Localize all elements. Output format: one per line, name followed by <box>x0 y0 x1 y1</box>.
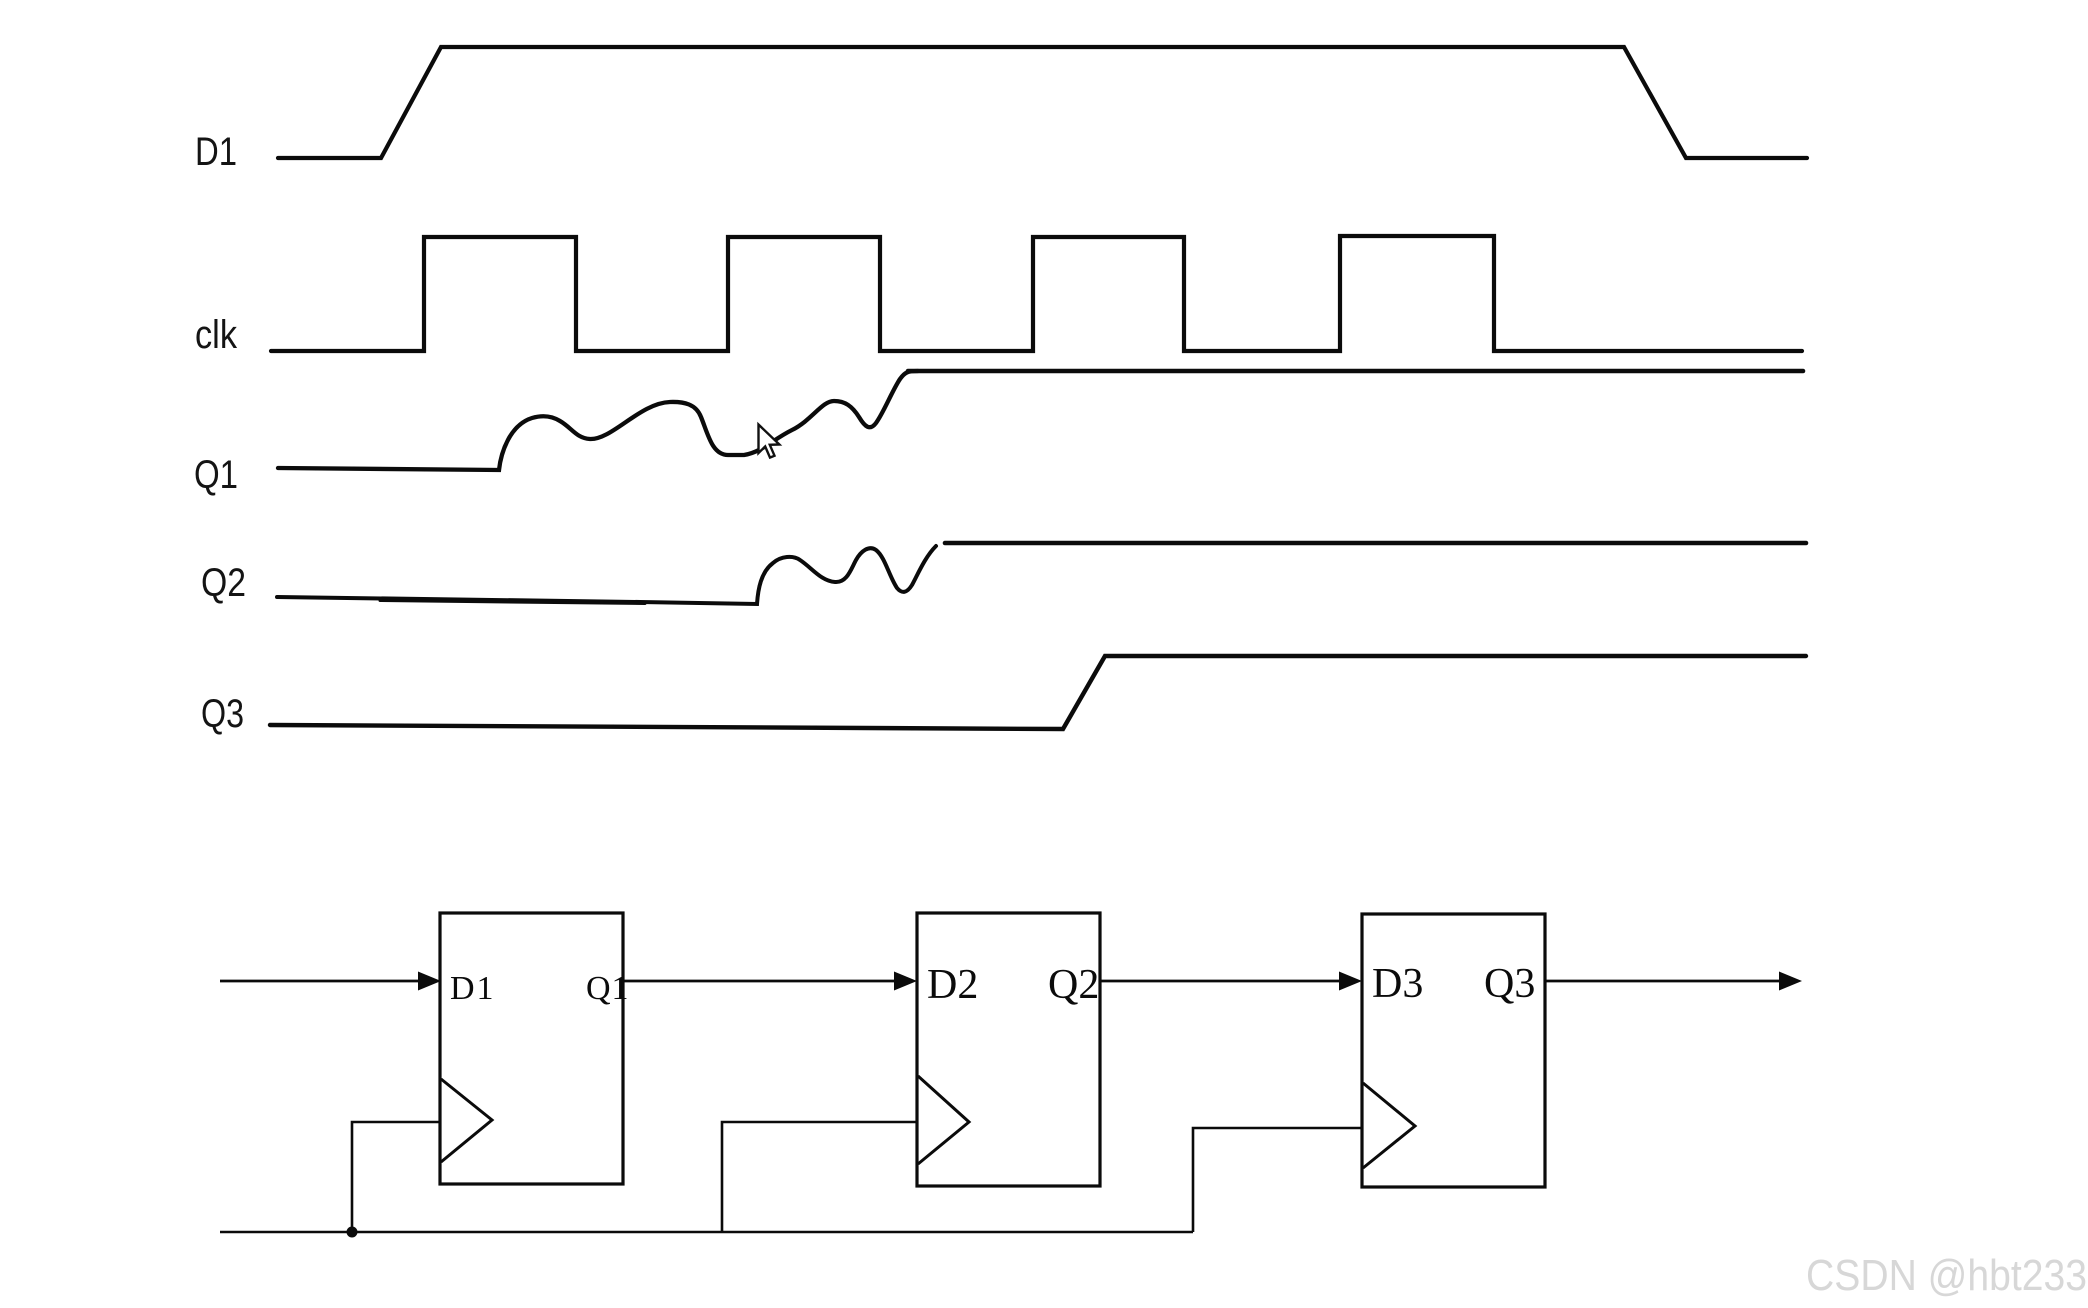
svg-text:D2: D2 <box>927 962 978 1008</box>
svg-text:Q2: Q2 <box>201 561 246 605</box>
waveform Q1 low + metastable squiggle <box>278 371 918 470</box>
wire input to D1 <box>220 980 421 983</box>
clock input triangle U3 <box>1363 1083 1415 1168</box>
waveform D1 <box>278 47 1807 158</box>
wire Q3 output <box>1545 980 1782 983</box>
wire clk to U2 <box>722 1122 917 1232</box>
svg-text:Q1: Q1 <box>586 970 630 1007</box>
flip-flop U2 box <box>917 913 1100 1186</box>
svg-text:Q3: Q3 <box>1484 961 1535 1007</box>
flip-flop U1 box <box>440 913 623 1184</box>
arrowhead output <box>1779 972 1802 991</box>
arrowhead into D1 <box>418 972 441 991</box>
waveform clk <box>271 236 1802 351</box>
waveform Q2 low + squiggle <box>277 546 936 604</box>
wire clk to U1 <box>352 1122 440 1232</box>
waveform Q3 <box>270 656 1806 729</box>
waveform Q1 settled high <box>908 369 1803 374</box>
svg-text:Q3: Q3 <box>201 692 244 736</box>
waveform Q2 settled high <box>945 541 1806 546</box>
svg-text:CSDN @hbt233: CSDN @hbt233 <box>1806 1251 2087 1300</box>
svg-text:Q1: Q1 <box>194 453 238 497</box>
svg-text:D1: D1 <box>450 970 496 1007</box>
svg-text:D3: D3 <box>1372 961 1423 1007</box>
waveform Q2 low doubled stroke <box>380 601 645 604</box>
wire clk to U3 <box>1193 1128 1362 1232</box>
mouse cursor <box>759 425 780 458</box>
flip-flop U3 box <box>1362 914 1545 1187</box>
wire Q2 to D3 <box>1100 980 1342 983</box>
arrowhead into D2 <box>894 972 917 991</box>
clock input triangle U2 <box>918 1076 969 1164</box>
arrowhead into D3 <box>1339 972 1362 991</box>
junction dot on clk net <box>347 1227 358 1238</box>
clock input triangle U1 <box>441 1079 492 1162</box>
clk net bottom wire <box>220 1231 1193 1234</box>
wire Q1 to D2 <box>623 980 897 983</box>
svg-text:clk: clk <box>195 313 238 357</box>
svg-text:Q2: Q2 <box>1048 962 1099 1008</box>
svg-text:D1: D1 <box>195 130 237 174</box>
